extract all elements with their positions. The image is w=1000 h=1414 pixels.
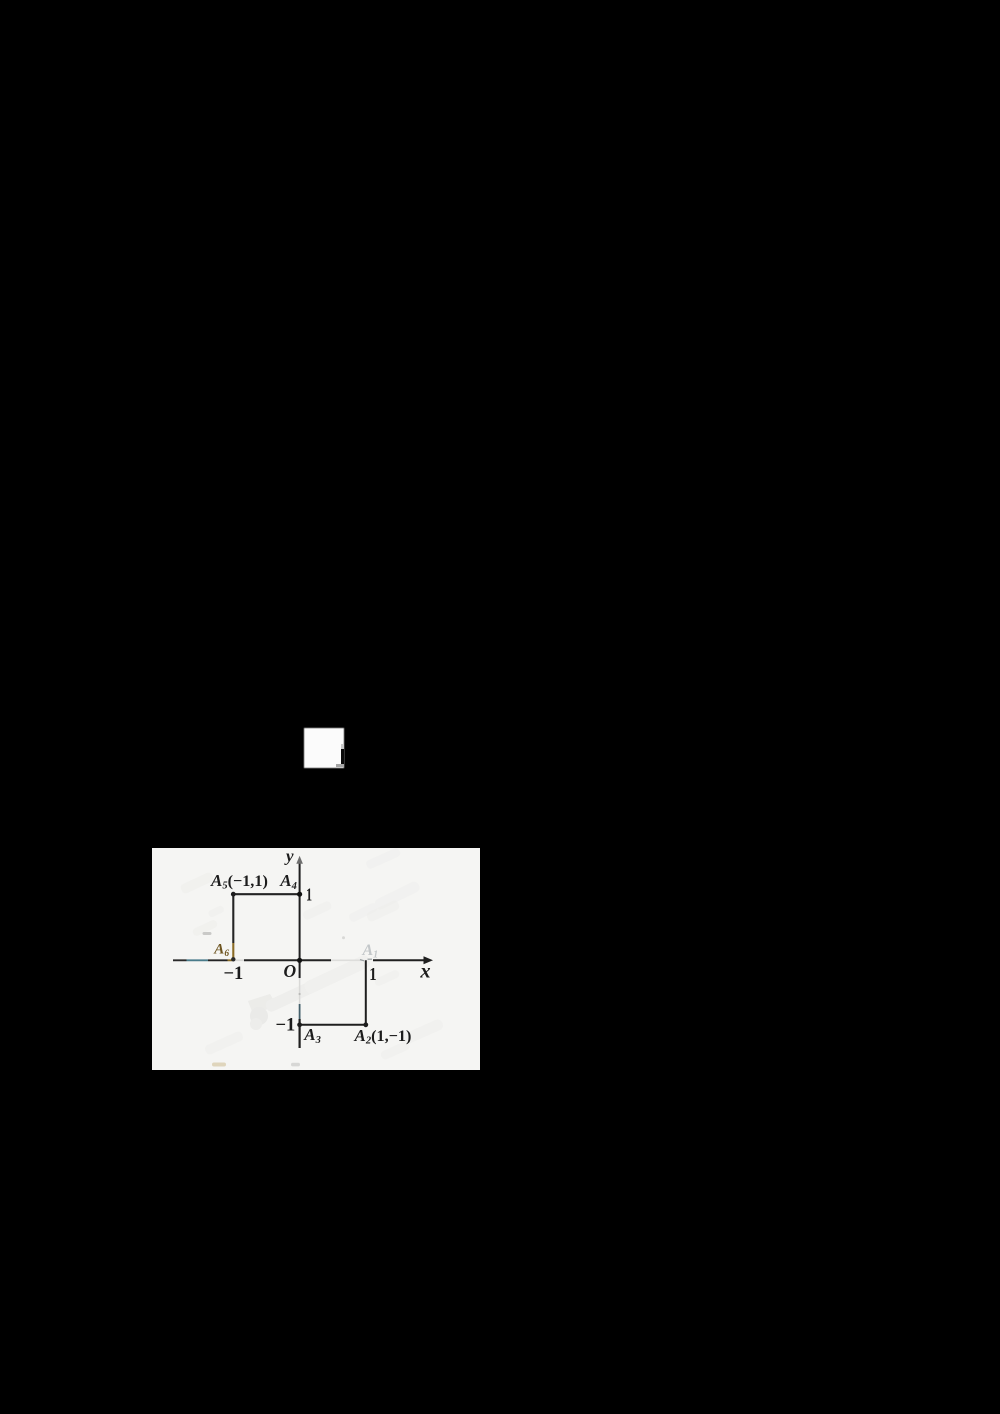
point A6 — [231, 957, 235, 961]
fragment glyph gray tab — [341, 744, 344, 749]
svg-text:−1: −1 — [276, 1015, 296, 1035]
watermark logo graduation cap — [248, 953, 372, 1029]
point A5 — [231, 891, 236, 896]
square side A5-A4 top — [233, 893, 299, 895]
watermark streak mid-left — [179, 871, 218, 937]
svg-text:A1: A1 — [362, 942, 379, 961]
faint gray dash artifact — [203, 932, 212, 935]
fragment glyph gray foot — [336, 764, 344, 767]
point A3 corner — [297, 1022, 302, 1027]
point A2 — [363, 1022, 368, 1027]
svg-text:1: 1 — [369, 963, 376, 984]
svg-text:A6: A6 — [213, 941, 229, 959]
svg-text:−1: −1 — [224, 964, 244, 984]
svg-text:1: 1 — [306, 885, 312, 905]
y-axis faint blip — [299, 992, 301, 994]
small white fragment square — [304, 728, 344, 769]
diagram panel — [152, 848, 480, 1071]
point A4 corner — [297, 891, 302, 896]
square side A5-A6 left — [232, 894, 234, 959]
watermark streak top-right — [348, 847, 421, 923]
point A1 faint tick — [360, 959, 372, 961]
x-axis arrowhead — [424, 956, 434, 964]
origin point — [297, 957, 302, 962]
svg-text:y: y — [284, 848, 294, 866]
watermark specks bottom — [204, 899, 445, 1060]
bottom edge specks — [212, 1062, 300, 1066]
svg-text:x: x — [419, 960, 430, 982]
svg-text:A5(−1,1): A5(−1,1) — [210, 870, 268, 891]
y-axis arrowhead — [296, 855, 303, 863]
svg-text:A4: A4 — [279, 871, 297, 892]
svg-text:A2(1,−1): A2(1,−1) — [354, 1025, 412, 1046]
square side A3-A2 bottom — [300, 1023, 366, 1025]
svg-text:A3: A3 — [303, 1025, 321, 1046]
x-axis — [173, 959, 425, 961]
square side A1-A2 right — [365, 960, 367, 1025]
svg-text:O: O — [284, 960, 297, 980]
fragment glyph black bar — [341, 749, 344, 764]
y-axis — [299, 863, 301, 1048]
faint gray dot artifact — [342, 936, 345, 939]
